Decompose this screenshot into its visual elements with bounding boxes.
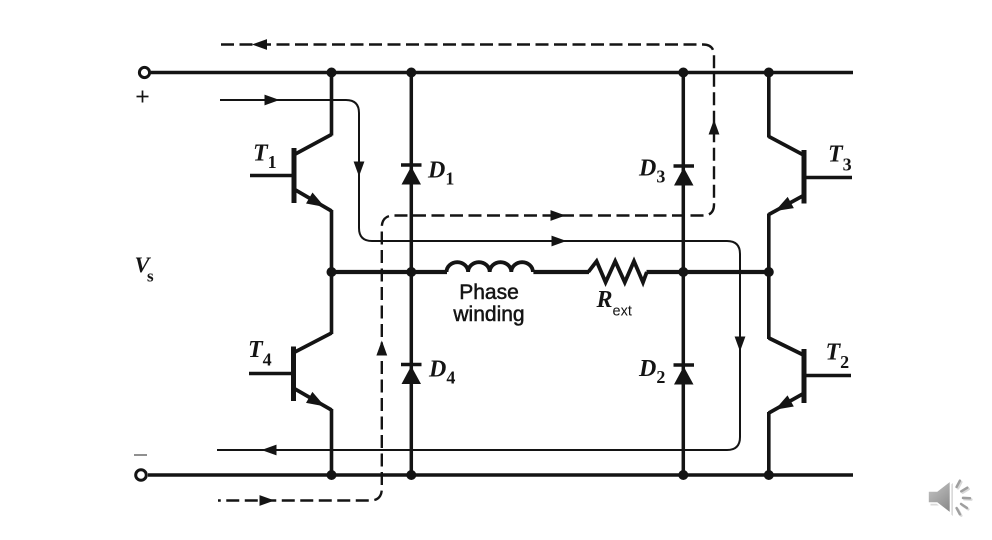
- node: bottom rail / T4 emitter: [327, 470, 337, 480]
- wire: phase branch right segment: [647, 270, 770, 274]
- transistor T2: [769, 272, 851, 475]
- node: top rail / D1 leg: [406, 68, 416, 78]
- diode D2: [674, 365, 695, 385]
- arrow: solid path down (left): [354, 162, 363, 175]
- terminal: - supply return: [136, 470, 147, 481]
- node: top rail / T3 collector: [764, 68, 774, 78]
- svg-text:T3: T3: [828, 142, 852, 175]
- node: phase branch / D3-D2 leg: [678, 267, 688, 277]
- wire: dashed freewheel path (D4-D3 loop): [218, 45, 714, 501]
- wire: bottom supply rail: [148, 473, 853, 477]
- svg-text:Phase: Phase: [459, 281, 519, 304]
- arrow: dashed path right (bottom): [260, 496, 273, 505]
- arrow: dashed path up (left): [377, 342, 386, 355]
- wire: left diode leg (x=411): [410, 73, 414, 476]
- diode D4: [401, 365, 422, 385]
- label -: [134, 454, 147, 456]
- wire: top supply rail: [151, 71, 853, 75]
- node: top rail / D3 leg: [678, 68, 688, 78]
- inductor: phase winding: [447, 262, 533, 272]
- speaker icon: [928, 481, 971, 517]
- wire: phase branch middle segment: [533, 270, 589, 274]
- svg-text:D4: D4: [428, 357, 455, 388]
- arrow: solid path down (right): [735, 337, 744, 350]
- node: phase branch / T3 emitter: [764, 267, 774, 277]
- arrow: solid path right (middle): [552, 236, 565, 245]
- svg-text:D2: D2: [638, 356, 665, 387]
- svg-text:winding: winding: [452, 303, 524, 326]
- svg-text:D3: D3: [638, 156, 665, 187]
- svg-text:Vs: Vs: [135, 252, 155, 286]
- diode D1: [401, 165, 422, 185]
- arrow: solid path left (bottom): [263, 445, 276, 454]
- transistor T4: [249, 272, 332, 475]
- node: bottom rail / D2 leg: [678, 470, 688, 480]
- transistor T1: [250, 73, 332, 273]
- node: top rail / T1 collector: [327, 68, 337, 78]
- node: bottom rail / D4 leg: [406, 470, 416, 480]
- svg-text:T4: T4: [248, 337, 272, 369]
- svg-text:Rext: Rext: [596, 287, 632, 320]
- arrow: dashed path left (top): [254, 40, 267, 49]
- svg-text:T1: T1: [253, 141, 277, 173]
- node: phase branch / D1-D4 leg: [406, 267, 416, 277]
- transistor T3: [769, 73, 852, 273]
- arrow: dashed path right (middle): [551, 211, 564, 220]
- node: bottom rail / T2 emitter: [764, 470, 774, 480]
- label +: [137, 91, 149, 103]
- diode D3: [674, 166, 695, 186]
- svg-text:T2: T2: [826, 339, 850, 372]
- resistor Rext: [588, 261, 647, 282]
- terminal: + supply input: [139, 67, 149, 77]
- svg-text:D1: D1: [427, 158, 454, 189]
- arrow: solid path right (top): [265, 95, 278, 104]
- wire: right diode leg (x=683): [682, 73, 686, 476]
- wire: phase branch left segment: [332, 270, 448, 274]
- node: phase branch / T1 emitter: [327, 267, 337, 277]
- wire: solid current path (T1-T2 conduction loop): [217, 100, 740, 450]
- arrow: dashed path up (right): [709, 121, 718, 134]
